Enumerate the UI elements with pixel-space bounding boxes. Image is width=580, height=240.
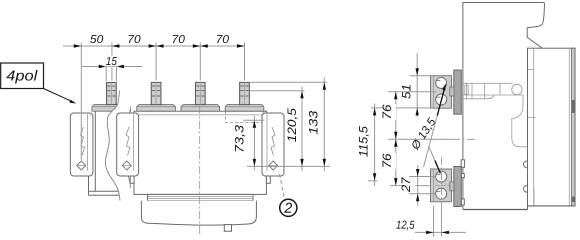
svg-text:27: 27	[401, 177, 413, 193]
svg-text:120,5: 120,5	[287, 107, 299, 142]
svg-text:4pol: 4pol	[6, 68, 38, 84]
svg-text:2: 2	[283, 201, 292, 217]
svg-text:76: 76	[382, 104, 394, 120]
svg-text:115,5: 115,5	[358, 125, 370, 157]
svg-text:15: 15	[106, 56, 118, 68]
svg-text:133: 133	[308, 110, 320, 135]
svg-text:70: 70	[172, 34, 186, 46]
svg-text:12,5: 12,5	[396, 220, 415, 232]
svg-text:70: 70	[216, 34, 230, 46]
svg-text:70: 70	[127, 34, 141, 46]
svg-text:73,3: 73,3	[235, 124, 247, 153]
svg-text:76: 76	[382, 153, 394, 169]
svg-text:50: 50	[90, 34, 104, 46]
